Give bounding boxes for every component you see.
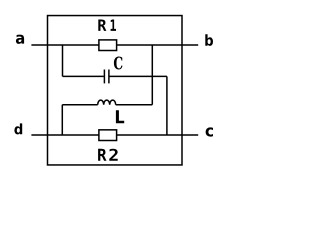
wire R2 to c: [117, 134, 199, 136]
wire node d up to L: [61, 105, 63, 135]
terminal a: [16, 35, 24, 44]
wire to L coil: [62, 104, 97, 106]
outer network box: [48, 16, 183, 165]
wire a to R1: [31, 44, 99, 46]
capacitor C left plate: [103, 70, 105, 84]
resistor R2: [99, 130, 117, 141]
wire C right plate to corner: [110, 75, 167, 77]
label L: [116, 110, 124, 123]
wire d to R2: [31, 134, 99, 136]
capacitor C right plate: [108, 70, 110, 84]
terminal b: [205, 34, 213, 46]
wire to C left plate: [63, 75, 104, 77]
wire C down to bottom wire: [166, 76, 168, 135]
terminal d: [14, 123, 22, 134]
label C: [114, 57, 123, 70]
terminal c: [206, 127, 213, 136]
wire node a down to C: [62, 45, 64, 76]
label R1: [98, 20, 116, 31]
wire R1 to b: [117, 44, 199, 46]
wire L up to top wire: [151, 45, 153, 105]
label R2: [98, 149, 118, 161]
resistor R1: [99, 40, 117, 51]
inductor L: [98, 100, 116, 105]
wire L to right riser: [116, 104, 153, 106]
